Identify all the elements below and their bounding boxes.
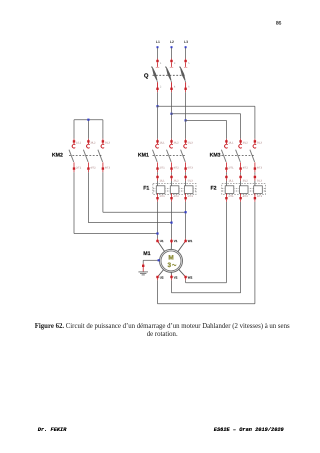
svg-text:4/T2: 4/T2	[243, 195, 249, 198]
wire L3 to Q	[185, 48, 187, 61]
KM2 pole 2 bottom terminal 4/T2	[87, 162, 96, 169]
KM2 pole 1 top terminal 1/L1	[73, 140, 82, 145]
KM1 pole 2 moving contact lever	[167, 150, 172, 162]
svg-text:1/L1: 1/L1	[76, 142, 82, 145]
KM3 pole 1 moving contact lever	[221, 150, 226, 162]
F1 pole 3 heater element	[184, 186, 193, 194]
svg-text:L1: L1	[156, 40, 160, 44]
KM2 pole 1 contact hook	[72, 144, 75, 148]
KM3 pole 3 contact hook	[253, 144, 256, 148]
wire F1 pole2 to motor V1	[171, 199, 173, 241]
wire Q pole1 down to node A	[157, 90, 159, 106]
motor frame wire to earth	[143, 260, 159, 266]
svg-text:6/T3: 6/T3	[257, 166, 263, 169]
F2 dashed frame	[222, 184, 265, 195]
svg-text:F2: F2	[211, 185, 217, 191]
svg-text:5/L3: 5/L3	[257, 179, 263, 182]
label Q	[144, 73, 149, 80]
F2 pole 2 bottom terminal 4/T2	[239, 193, 248, 199]
svg-text:2/T1: 2/T1	[160, 166, 166, 169]
F1 pole 2 top terminal 3/L2	[170, 176, 179, 186]
svg-text:2/T1: 2/T1	[160, 195, 166, 198]
junction node motor frame	[158, 259, 160, 261]
F1 pole 2 heater element	[170, 186, 179, 194]
KM1 pole 3 contact hook	[184, 144, 187, 148]
svg-text:3/L2: 3/L2	[174, 179, 180, 182]
KM1 pole 3 moving contact lever	[181, 150, 186, 162]
source terminal L2	[171, 46, 173, 48]
KM1 pole 1 contact hook	[156, 144, 159, 148]
KM2 pole 1 bottom terminal 2/T1	[73, 162, 82, 169]
svg-text:4/T2: 4/T2	[90, 166, 96, 169]
svg-text:V2: V2	[174, 275, 178, 279]
KM2 pole 2 moving contact lever	[83, 150, 88, 162]
svg-text:3: 3	[174, 62, 176, 65]
svg-text:3/L2: 3/L2	[174, 142, 180, 145]
contactor KM1	[138, 140, 193, 170]
Q pole 1 fixed contact	[156, 62, 159, 67]
F2 pole 1 heater element	[225, 186, 234, 194]
svg-text:Q: Q	[144, 73, 149, 80]
wire L1 to Q	[157, 48, 159, 61]
fuse-disconnector Q	[144, 60, 190, 90]
motor M1	[143, 239, 192, 279]
KM3 pole 3 moving contact lever	[250, 150, 255, 162]
svg-text:KM3: KM3	[210, 153, 221, 159]
wire motor V2 to F2 pole2	[172, 199, 241, 292]
svg-text:M1: M1	[143, 251, 150, 257]
KM2 pole 3 bottom terminal 6/T3	[102, 162, 111, 169]
KM3 pole 1 top terminal 1/L1	[225, 140, 234, 145]
svg-text:4: 4	[174, 85, 176, 88]
svg-text:W1: W1	[188, 239, 193, 243]
KM3 pole 3 bottom terminal 6/T3	[254, 162, 263, 169]
F1 pole 1 bottom terminal 2/T1	[156, 193, 165, 199]
footer author	[38, 427, 67, 433]
svg-text:1/L1: 1/L1	[228, 179, 234, 182]
net label L2	[170, 40, 174, 44]
Q pole 2 bottom terminal 4	[170, 82, 176, 90]
F2 pole 3 bottom terminal 6/T3	[254, 193, 263, 199]
Q pole 1 fuse lever	[152, 67, 158, 83]
wire F1 pole3 to motor W1	[185, 199, 187, 241]
KM2 pole 2 top terminal 3/L2	[87, 140, 96, 145]
KM1 pole 2 contact hook	[170, 144, 173, 148]
F2 pole 1 bottom terminal 2/T1	[225, 193, 234, 199]
contactor KM3	[210, 140, 263, 170]
svg-text:V1: V1	[174, 239, 178, 243]
KM1 pole 1 moving contact lever	[153, 150, 158, 162]
KM2 star-point bus wire	[74, 120, 103, 141]
motor terminal U2	[156, 270, 164, 280]
svg-text:1/L1: 1/L1	[160, 179, 166, 182]
Q pole 1 bottom terminal 2	[156, 82, 162, 90]
svg-text:1/L1: 1/L1	[228, 142, 234, 145]
wire contactor to relay	[240, 170, 242, 177]
svg-text:U1: U1	[160, 239, 164, 243]
wire node A down to KM1 pole1	[157, 106, 159, 141]
Q pole 2 fixed contact	[170, 62, 173, 67]
svg-text:KM1: KM1	[138, 153, 149, 159]
svg-text:1: 1	[160, 62, 162, 65]
F1 pole 3 top terminal 5/L3	[184, 176, 193, 186]
svg-text:2/T1: 2/T1	[228, 166, 234, 169]
junction node on V1 wire	[170, 222, 172, 224]
KM3 pole 1 contact hook	[225, 144, 228, 148]
KM1 pole 1 bottom terminal 2/T1	[156, 162, 165, 169]
Q pole 3 bottom terminal 6	[184, 82, 190, 90]
svg-text:2/T1: 2/T1	[228, 195, 234, 198]
svg-text:86: 86	[276, 20, 282, 26]
wire KM2 pole1 to node U1	[74, 170, 158, 234]
net label L1	[156, 40, 160, 44]
junction node on W1 wire	[185, 211, 187, 213]
svg-text:5: 5	[188, 62, 190, 65]
KM1 pole 3 bottom terminal 6/T3	[184, 162, 193, 169]
KM2 pole 1 moving contact lever	[69, 150, 74, 162]
wire node A to KM3 pole3	[158, 106, 255, 141]
KM3 pole 2 bottom terminal 4/T2	[239, 162, 248, 169]
wire F1 pole1 to motor U1	[157, 199, 159, 241]
footer course reference	[214, 427, 284, 433]
junction node on U1 wire	[156, 232, 158, 234]
wire KM2 pole3 to node W1	[103, 170, 186, 212]
KM3 pole 2 contact hook	[239, 144, 242, 148]
svg-text:5/L3: 5/L3	[105, 142, 111, 145]
star bus junction node	[87, 119, 89, 121]
thermal overload relay F2	[211, 176, 266, 200]
KM3 pole 2 top terminal 3/L2	[239, 140, 248, 145]
KM2 pole 3 moving contact lever	[98, 150, 103, 162]
wire contactor to relay	[157, 170, 159, 177]
svg-text:L2: L2	[170, 40, 174, 44]
svg-text:6/T3: 6/T3	[105, 166, 111, 169]
label KM3	[210, 153, 221, 159]
wire contactor to relay	[185, 170, 187, 177]
svg-text:6: 6	[188, 85, 190, 88]
svg-text:2/T1: 2/T1	[76, 166, 82, 169]
KM1 pole 1 top terminal 1/L1	[156, 140, 165, 145]
svg-text:U2: U2	[160, 275, 164, 279]
svg-text:4/T2: 4/T2	[174, 195, 180, 198]
wire Q pole2 down to node B	[171, 90, 173, 114]
F1 pole 1 top terminal 1/L1	[156, 176, 165, 186]
Q pole 3 fixed contact	[184, 62, 187, 67]
source terminal L3	[185, 46, 187, 48]
Q pole 1 top terminal 1	[156, 60, 162, 65]
wire node C to KM3 pole1	[186, 120, 227, 141]
KM2 pole 3 contact hook	[101, 144, 104, 148]
F2 pole 1 top terminal 1/L1	[225, 176, 234, 186]
Q pole 2 fuse lever	[166, 67, 172, 83]
thermal overload relay F1	[143, 176, 196, 200]
F2 pole 3 top terminal 5/L3	[254, 176, 263, 186]
wire Q pole3 down to node C	[185, 90, 187, 120]
Q pole 3 fuse lever	[180, 67, 186, 83]
wire motor U2 to F2 pole3	[158, 199, 255, 303]
svg-text:6/T3: 6/T3	[188, 195, 194, 198]
F2 pole 3 heater element	[254, 186, 263, 194]
motor body circles	[160, 249, 183, 272]
svg-text:W2: W2	[188, 275, 193, 279]
KM1 pole 2 bottom terminal 4/T2	[170, 162, 179, 169]
svg-text:KM2: KM2	[52, 153, 63, 159]
F1 pole 3 bottom terminal 6/T3	[184, 193, 193, 199]
node C junction	[185, 119, 187, 121]
svg-text:6/T3: 6/T3	[257, 195, 263, 198]
svg-text:6/T3: 6/T3	[188, 166, 194, 169]
F2 pole 2 heater element	[239, 186, 248, 194]
KM2 linkage dashed line	[69, 154, 102, 156]
F2 pole 2 top terminal 3/L2	[239, 176, 248, 186]
svg-text:F1: F1	[143, 185, 149, 191]
svg-text:5/L3: 5/L3	[188, 142, 194, 145]
label F2	[211, 185, 217, 191]
wire motor W2 to F2 pole1	[186, 199, 227, 282]
F1 dashed frame	[153, 184, 196, 195]
Q pole 2 top terminal 3	[170, 60, 176, 65]
wire contactor to relay	[225, 170, 227, 177]
wire node C down to KM1 pole3	[185, 120, 187, 141]
contactor KM2	[52, 140, 111, 170]
KM3 pole 2 moving contact lever	[236, 150, 241, 162]
wire node B down to KM1 pole2	[171, 114, 173, 141]
KM1 pole 3 top terminal 5/L3	[184, 140, 193, 145]
node A junction	[156, 105, 158, 107]
motor terminal U1	[156, 239, 164, 251]
svg-text:3/L2: 3/L2	[243, 179, 249, 182]
KM2 pole 3 top terminal 5/L3	[102, 140, 111, 145]
svg-text:M: M	[168, 255, 173, 262]
KM1 linkage dashed line	[153, 154, 186, 156]
KM2 pole 2 contact hook	[87, 144, 90, 148]
figure caption	[2, 323, 320, 340]
svg-text:3/L2: 3/L2	[90, 142, 96, 145]
label KM2	[52, 153, 63, 159]
svg-text:3/L2: 3/L2	[243, 142, 249, 145]
motor terminal W1	[178, 239, 193, 252]
ground symbol	[138, 267, 148, 275]
KM1 pole 2 top terminal 3/L2	[170, 140, 179, 145]
svg-text:2: 2	[160, 85, 162, 88]
svg-text:4/T2: 4/T2	[174, 166, 180, 169]
earth terminal	[142, 265, 144, 267]
svg-text:5/L3: 5/L3	[188, 179, 194, 182]
F1 pole 1 heater element	[156, 186, 165, 194]
Q pole 3 top terminal 5	[184, 60, 190, 65]
wire node B to KM3 pole2	[172, 114, 241, 141]
svg-text:3: 3	[168, 262, 172, 269]
node B junction	[170, 113, 172, 115]
KM3 linkage dashed line	[221, 154, 254, 156]
motor terminal V2	[170, 272, 177, 279]
svg-text:4/T2: 4/T2	[243, 166, 249, 169]
net label L3	[184, 40, 188, 44]
wire L2 to Q	[171, 48, 173, 61]
motor terminal W2	[179, 269, 193, 279]
label M1	[143, 251, 150, 257]
wire contactor to relay	[171, 170, 173, 177]
F1 pole 2 bottom terminal 4/T2	[170, 193, 179, 199]
motor terminal V1	[170, 239, 177, 249]
KM3 pole 3 top terminal 5/L3	[254, 140, 263, 145]
svg-text:L3: L3	[184, 40, 188, 44]
KM3 pole 1 bottom terminal 2/T1	[225, 162, 234, 169]
svg-text:1/L1: 1/L1	[160, 142, 166, 145]
source terminal L1	[157, 46, 159, 48]
wire KM2 pole2 to node V1	[88, 170, 171, 223]
svg-text:5/L3: 5/L3	[257, 142, 263, 145]
wire contactor to relay	[254, 170, 256, 177]
Q linkage dashed line	[153, 74, 185, 76]
label F1	[143, 185, 149, 191]
label KM1	[138, 153, 149, 159]
